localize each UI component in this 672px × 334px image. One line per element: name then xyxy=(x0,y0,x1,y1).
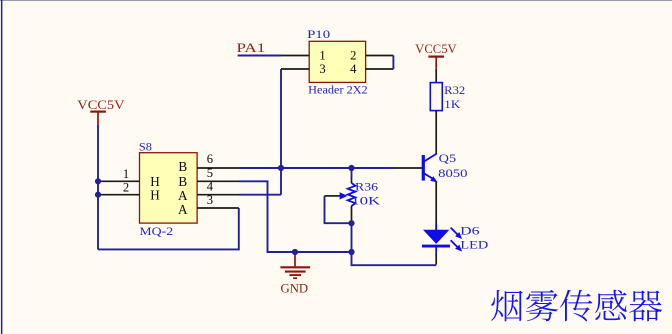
svg-text:10K: 10K xyxy=(351,194,381,208)
P10 pin 2 xyxy=(366,55,394,57)
svg-text:D6: D6 xyxy=(460,223,480,237)
wire node row to R36 top xyxy=(351,168,353,177)
D6 cathode pin xyxy=(435,252,437,264)
svg-text:A: A xyxy=(178,188,188,203)
svg-text:1: 1 xyxy=(123,167,129,181)
wire bottom loop to MQ-2 pin3 xyxy=(98,208,239,249)
ground symbol GND xyxy=(280,252,310,278)
svg-text:MQ-2: MQ-2 xyxy=(139,224,173,238)
svg-text:VCC5V: VCC5V xyxy=(415,42,457,56)
wire R36 bottom to rail xyxy=(351,223,353,252)
wire loop pin2 to pin4 xyxy=(392,56,394,70)
svg-text:1K: 1K xyxy=(444,97,461,111)
title text 烟雾传感器 (smoke sensor) xyxy=(491,290,662,322)
wire node row: pin6 to Q5 base xyxy=(239,167,394,169)
sheet border top edge xyxy=(0,0,672,2)
svg-text:R36: R36 xyxy=(355,179,378,193)
svg-text:Q5: Q5 xyxy=(439,151,457,165)
wire pin5 to ground rail xyxy=(239,181,352,252)
connector P10 body xyxy=(309,41,365,82)
D6 emission arrow 1 xyxy=(451,228,463,239)
svg-text:R32: R32 xyxy=(444,83,465,97)
wire PA1 to P10 pin1 xyxy=(238,55,281,57)
wire P10 pin3 down to node xyxy=(280,69,282,195)
S8 pin 2 xyxy=(99,194,140,196)
svg-text:LED: LED xyxy=(460,238,488,252)
S8 pin 6 xyxy=(197,167,239,169)
S8 pin 5 xyxy=(197,180,239,182)
R36 pin bottom xyxy=(351,206,353,223)
S8 pin 4 xyxy=(197,194,239,196)
svg-text:P10: P10 xyxy=(307,27,330,41)
D6 emission arrow 2 xyxy=(451,240,463,251)
power port VCC5V (left) bar symbol xyxy=(90,110,106,112)
svg-text:3: 3 xyxy=(207,193,213,207)
svg-text:2: 2 xyxy=(350,48,356,62)
svg-text:4: 4 xyxy=(350,62,357,76)
Q5 emitter pin / D6 anode pin xyxy=(435,182,437,230)
node VCC/MQ2.1 junction xyxy=(95,178,101,184)
wire R36 wiper loop xyxy=(325,196,352,223)
P10 pin 4 xyxy=(366,68,394,70)
R32 pin top xyxy=(435,69,437,83)
svg-text:2: 2 xyxy=(123,181,129,195)
R36 pin top xyxy=(351,177,353,183)
svg-text:1: 1 xyxy=(319,48,325,62)
svg-text:8050: 8050 xyxy=(438,166,468,180)
P10 pin 1 xyxy=(281,55,309,57)
svg-text:3: 3 xyxy=(319,62,325,76)
R32 pin bottom / Q5 collector pin xyxy=(435,111,437,154)
svg-text:PA1: PA1 xyxy=(237,41,266,55)
svg-text:S8: S8 xyxy=(139,139,152,153)
sheet border left edge xyxy=(1,0,3,334)
rheostat R36 zigzag body xyxy=(348,183,356,206)
svg-text:VCC5V: VCC5V xyxy=(77,98,124,112)
wire VCC left rail down xyxy=(97,125,99,249)
resistor R32 body xyxy=(430,83,442,111)
svg-text:6: 6 xyxy=(207,152,213,166)
R36 wiper arrow xyxy=(325,192,348,199)
gas sensor S8 body xyxy=(140,153,198,223)
S8 pin 1 xyxy=(99,180,140,182)
P10 pin 3 xyxy=(281,68,309,70)
transistor Q5 base pin xyxy=(394,167,422,169)
transistor Q5 symbol xyxy=(423,154,437,183)
svg-text:Header 2X2: Header 2X2 xyxy=(308,83,368,97)
node R36 bottom junction xyxy=(348,249,354,255)
node R36 wiper junction xyxy=(348,220,354,226)
power port VCC5V (right) bar symbol xyxy=(428,55,444,57)
node P10.3/MQ2.6 junction xyxy=(278,165,284,171)
svg-text:B: B xyxy=(178,159,187,174)
svg-text:B: B xyxy=(178,174,187,189)
diode D6 LED symbol xyxy=(422,223,450,252)
svg-text:A: A xyxy=(178,202,188,217)
S8 pin 3 xyxy=(197,207,239,209)
node GND junction xyxy=(292,249,298,255)
svg-text:5: 5 xyxy=(207,166,213,180)
wire pin4 to P10 pin3 net xyxy=(239,194,281,196)
node VCC/MQ2.2 junction xyxy=(95,192,101,198)
svg-text:4: 4 xyxy=(207,179,214,193)
wire LED cathode to R36 bottom xyxy=(352,252,437,265)
svg-text:GND: GND xyxy=(281,281,309,295)
node R36 top junction xyxy=(348,165,354,171)
svg-text:H: H xyxy=(150,187,160,202)
